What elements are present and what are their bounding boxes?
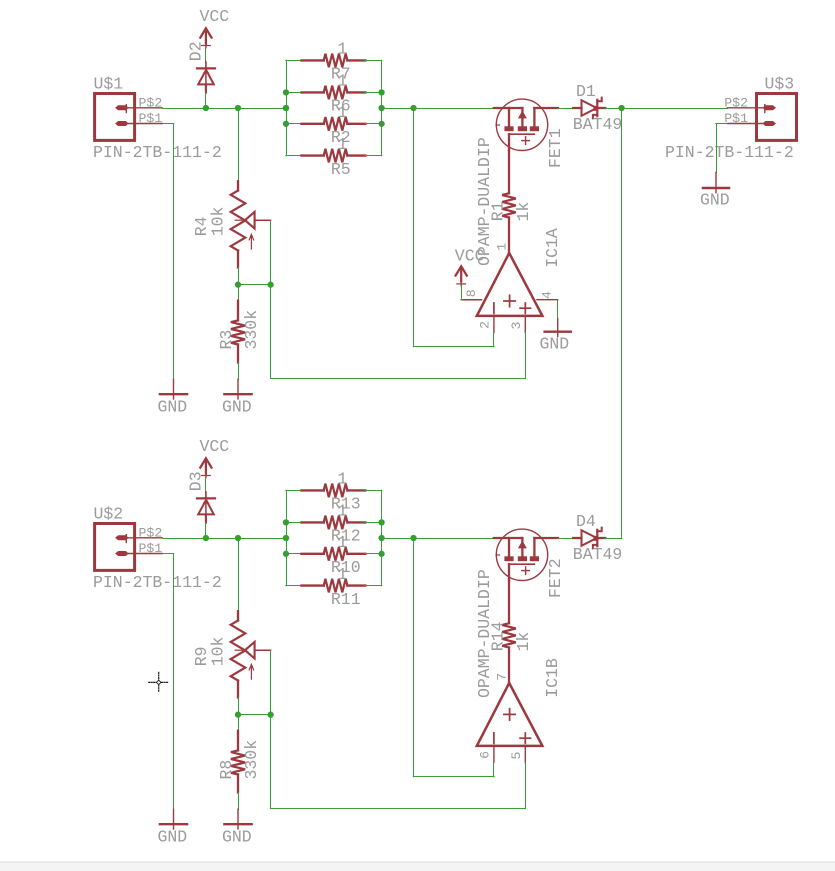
svg-text:1k: 1k	[514, 632, 533, 652]
svg-text:PIN-2TB-111-2: PIN-2TB-111-2	[665, 143, 794, 162]
svg-text:1: 1	[337, 103, 347, 122]
svg-text:FET2: FET2	[546, 558, 565, 598]
svg-text:P$1: P$1	[139, 541, 163, 556]
svg-text:PIN-2TB-111-2: PIN-2TB-111-2	[93, 143, 222, 162]
svg-text:D3: D3	[187, 471, 206, 491]
svg-text:GND: GND	[700, 191, 730, 210]
svg-text:U$3: U$3	[765, 75, 795, 94]
svg-text:330k: 330k	[242, 310, 261, 350]
svg-text:2: 2	[477, 321, 492, 329]
svg-text:IC1A: IC1A	[543, 228, 562, 268]
svg-text:1: 1	[337, 533, 347, 552]
svg-text:U$2: U$2	[94, 505, 124, 524]
svg-text:330k: 330k	[242, 740, 261, 780]
svg-text:1: 1	[337, 135, 347, 154]
svg-text:P$2: P$2	[139, 525, 163, 540]
svg-text:D2: D2	[187, 41, 206, 61]
svg-text:R8: R8	[217, 760, 236, 780]
svg-text:5: 5	[509, 752, 524, 760]
svg-text:10k: 10k	[209, 206, 228, 236]
svg-text:P$2: P$2	[139, 95, 163, 110]
svg-text:PIN-2TB-111-2: PIN-2TB-111-2	[93, 573, 222, 592]
svg-text:OPAMP-DUALDIP: OPAMP-DUALDIP	[475, 569, 494, 698]
svg-text:VCC: VCC	[455, 246, 485, 265]
svg-text:3: 3	[509, 322, 524, 330]
svg-text:1: 1	[337, 72, 347, 91]
svg-text:GND: GND	[158, 397, 188, 416]
svg-text:D4: D4	[576, 512, 596, 531]
svg-text:R3: R3	[217, 330, 236, 350]
svg-text:4: 4	[539, 291, 554, 299]
svg-text:R11: R11	[331, 590, 361, 609]
svg-text:1: 1	[337, 565, 347, 584]
svg-text:1: 1	[337, 502, 347, 521]
svg-text:D1: D1	[576, 82, 596, 101]
svg-text:P$1: P$1	[139, 111, 163, 126]
svg-text:GND: GND	[540, 334, 570, 353]
svg-text:GND: GND	[158, 827, 188, 846]
svg-text:IC1B: IC1B	[543, 658, 562, 698]
svg-text:VCC: VCC	[200, 7, 230, 26]
svg-text:U$1: U$1	[94, 75, 124, 94]
svg-text:6: 6	[477, 751, 492, 759]
svg-text:VCC: VCC	[200, 437, 230, 456]
svg-text:BAT49: BAT49	[573, 115, 623, 134]
svg-text:7: 7	[494, 673, 509, 681]
svg-text:R5: R5	[331, 160, 351, 179]
svg-text:1: 1	[494, 243, 509, 251]
svg-text:1k: 1k	[514, 202, 533, 222]
svg-text:8: 8	[464, 289, 479, 297]
svg-text:GND: GND	[222, 397, 252, 416]
svg-text:FET1: FET1	[546, 128, 565, 168]
svg-text:10k: 10k	[209, 636, 228, 666]
svg-text:1: 1	[337, 40, 347, 59]
svg-text:1: 1	[337, 470, 347, 489]
svg-text:GND: GND	[222, 827, 252, 846]
svg-text:BAT49: BAT49	[573, 545, 623, 564]
